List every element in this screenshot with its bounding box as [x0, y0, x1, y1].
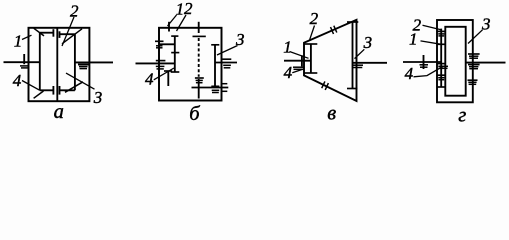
svg-text:1: 1 — [283, 38, 292, 57]
svg-text:в: в — [327, 103, 336, 125]
svg-text:2: 2 — [70, 2, 79, 21]
svg-text:г: г — [458, 104, 466, 126]
svg-text:1: 1 — [14, 32, 22, 51]
svg-text:4: 4 — [13, 71, 22, 90]
svg-text:4: 4 — [145, 70, 154, 89]
svg-text:3: 3 — [235, 30, 245, 49]
svg-text:3: 3 — [363, 33, 373, 52]
svg-text:1: 1 — [176, 0, 185, 19]
svg-text:4: 4 — [284, 63, 293, 82]
svg-text:3: 3 — [93, 88, 103, 107]
svg-text:3: 3 — [481, 15, 491, 34]
svg-text:а: а — [54, 101, 64, 123]
svg-text:2: 2 — [310, 9, 319, 28]
svg-text:1: 1 — [409, 30, 418, 49]
svg-text:б: б — [189, 103, 200, 125]
svg-text:4: 4 — [405, 64, 414, 83]
svg-text:2: 2 — [184, 0, 193, 18]
